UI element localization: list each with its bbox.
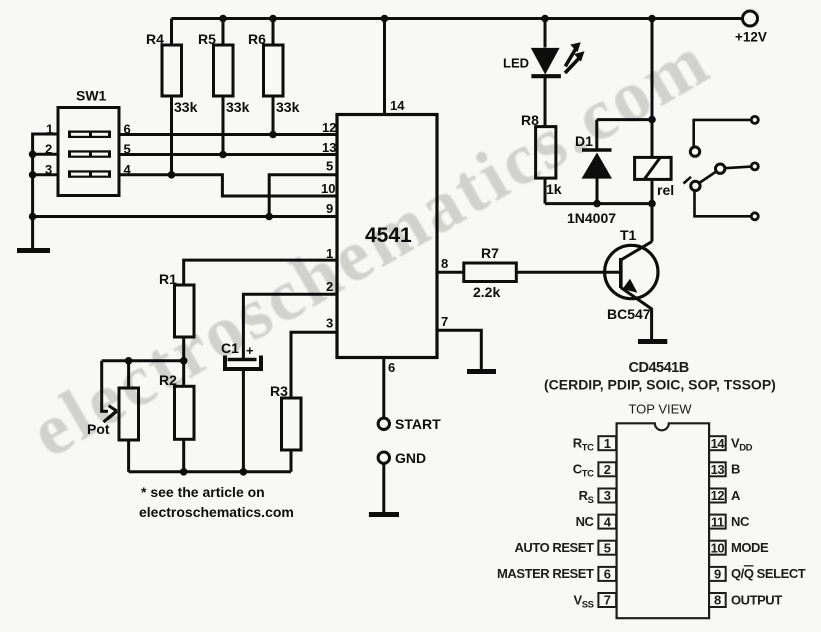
- svg-text:MASTER RESET: MASTER RESET: [497, 566, 594, 581]
- svg-text:9: 9: [714, 567, 721, 582]
- svg-text:AUTO RESET: AUTO RESET: [514, 540, 594, 555]
- svg-text:* see the article on: * see the article on: [141, 484, 265, 500]
- terminal START: [378, 418, 389, 429]
- svg-text:A: A: [731, 488, 741, 503]
- wire SW1 pin3: [33, 173, 58, 176]
- svg-text:3: 3: [604, 488, 611, 503]
- wire row6 to pin12: [119, 133, 337, 136]
- svg-text:5: 5: [326, 159, 333, 174]
- wire pin1 to R1: [184, 260, 337, 285]
- wire pin2 to C1: [243, 294, 337, 358]
- svg-text:10: 10: [321, 181, 335, 196]
- ground pin7: [467, 369, 496, 374]
- +12V terminal: [743, 11, 758, 26]
- relay coil: [635, 157, 675, 198]
- ground emitter: [638, 339, 667, 344]
- svg-text:NC: NC: [731, 514, 750, 529]
- resistor R2: [159, 372, 194, 472]
- ground SW1 common: [17, 248, 50, 253]
- wire collector: [651, 204, 654, 242]
- pin boxes left: [598, 436, 616, 607]
- wire node row R1 bottom: [102, 359, 184, 362]
- resistor R8: [521, 112, 562, 204]
- wire pot top: [127, 361, 130, 388]
- wire pin8 to R7: [437, 271, 464, 274]
- wire top supply rail: [172, 17, 743, 20]
- svg-text:33k: 33k: [276, 99, 300, 115]
- svg-text:NC: NC: [576, 514, 595, 529]
- wire R4 top: [170, 19, 173, 46]
- wire LED top: [544, 19, 547, 48]
- svg-text:BC547: BC547: [607, 306, 651, 322]
- relay contacts: [684, 120, 752, 216]
- svg-text:6: 6: [388, 360, 395, 375]
- resistor R7: [464, 245, 517, 300]
- svg-text:8: 8: [441, 256, 448, 271]
- wire R7 to base: [516, 271, 621, 274]
- svg-text:2.2k: 2.2k: [473, 284, 500, 300]
- wire SW1 pin1: [33, 134, 58, 248]
- diode D1 1N4007: [567, 120, 616, 226]
- wire row5 to pin13: [119, 153, 337, 156]
- wire emitter: [650, 308, 653, 340]
- switch SW1: [58, 88, 119, 196]
- resistor R5: [198, 31, 250, 155]
- potentiometer Pot: [87, 388, 139, 472]
- svg-text:(CERDIP, PDIP, SOIC, SOP, TSSO: (CERDIP, PDIP, SOIC, SOP, TSSOP): [544, 377, 776, 393]
- wire SW1 pin2: [33, 153, 58, 156]
- pin boxes right: [709, 436, 726, 607]
- terminal GND: [378, 452, 389, 463]
- wire relay bottom: [651, 179, 654, 203]
- svg-text:7: 7: [441, 314, 448, 329]
- svg-text:12: 12: [322, 120, 336, 135]
- wire pin5 to pin9 junction: [269, 175, 337, 217]
- wire GND terminal down: [382, 463, 385, 513]
- wire pot wiper: [100, 361, 103, 411]
- svg-text:8: 8: [714, 593, 721, 608]
- wire bottom node LED/D1/relay: [545, 202, 652, 205]
- svg-text:6: 6: [604, 567, 611, 582]
- resistor R4: [146, 31, 198, 175]
- svg-text:1: 1: [604, 436, 611, 451]
- svg-text:R6: R6: [248, 31, 266, 47]
- svg-text:B: B: [731, 462, 740, 477]
- svg-text:+12V: +12V: [735, 30, 767, 45]
- svg-text:7: 7: [604, 593, 611, 608]
- svg-text:1N4007: 1N4007: [567, 210, 616, 226]
- svg-text:TOP VIEW: TOP VIEW: [628, 402, 692, 417]
- svg-text:Q/Q SELECT: Q/Q SELECT: [731, 566, 806, 581]
- IC U1 4541: [337, 115, 437, 358]
- svg-text:2: 2: [604, 462, 611, 477]
- svg-text:SW1: SW1: [76, 88, 107, 104]
- svg-text:12: 12: [711, 488, 725, 503]
- pin labels left: [497, 436, 595, 611]
- LED: [503, 42, 585, 126]
- svg-text:14: 14: [390, 98, 405, 113]
- wire pin3 to R3: [291, 332, 337, 398]
- svg-text:CD4541B: CD4541B: [629, 360, 689, 376]
- svg-text:GND: GND: [395, 450, 426, 466]
- pin labels right: [731, 436, 806, 608]
- svg-text:10: 10: [711, 540, 725, 555]
- svg-text:3: 3: [326, 316, 333, 331]
- wire common to pin9: [33, 215, 337, 218]
- svg-text:13: 13: [711, 462, 725, 477]
- transistor T1: [605, 227, 658, 322]
- ground GND: [369, 512, 399, 517]
- pin numbers: [604, 436, 726, 608]
- svg-text:R4: R4: [146, 31, 164, 47]
- svg-text:9: 9: [326, 201, 333, 216]
- svg-text:OUTPUT: OUTPUT: [731, 592, 782, 607]
- svg-text:T1: T1: [620, 227, 637, 243]
- svg-text:11: 11: [711, 514, 724, 529]
- wire row4 to pin10: [119, 175, 337, 196]
- wire pin7 to ground: [437, 330, 481, 370]
- wire relay top: [651, 19, 654, 158]
- svg-text:14: 14: [711, 436, 726, 451]
- wire R6 top: [272, 19, 275, 46]
- capacitor C1: [221, 340, 261, 472]
- resistor R1: [159, 271, 194, 386]
- svg-text:R5: R5: [198, 31, 216, 47]
- svg-text:R7: R7: [481, 245, 499, 261]
- svg-text:33k: 33k: [226, 99, 250, 115]
- svg-text:33k: 33k: [174, 99, 198, 115]
- svg-text:LED: LED: [503, 56, 529, 71]
- svg-text:R1: R1: [159, 271, 177, 287]
- pinout diagram CD4541B: [544, 360, 776, 618]
- wire pin6 to START: [382, 358, 385, 419]
- wire D1 top to relay column: [597, 118, 652, 121]
- pot wiper arrow: [100, 406, 117, 422]
- IC body: [617, 423, 710, 618]
- svg-text:electroschematics.com: electroschematics.com: [139, 504, 294, 520]
- resistor R3: [270, 383, 301, 472]
- wire pin14: [383, 19, 386, 115]
- resistor R6: [248, 31, 300, 135]
- wire R5 top: [222, 19, 225, 46]
- svg-text:13: 13: [322, 140, 336, 155]
- svg-text:5: 5: [604, 540, 611, 555]
- svg-text:START: START: [395, 416, 441, 432]
- wire bottom rail: [129, 470, 291, 473]
- svg-text:R3: R3: [270, 383, 288, 399]
- svg-text:rel: rel: [657, 182, 674, 198]
- svg-text:MODE: MODE: [731, 540, 769, 555]
